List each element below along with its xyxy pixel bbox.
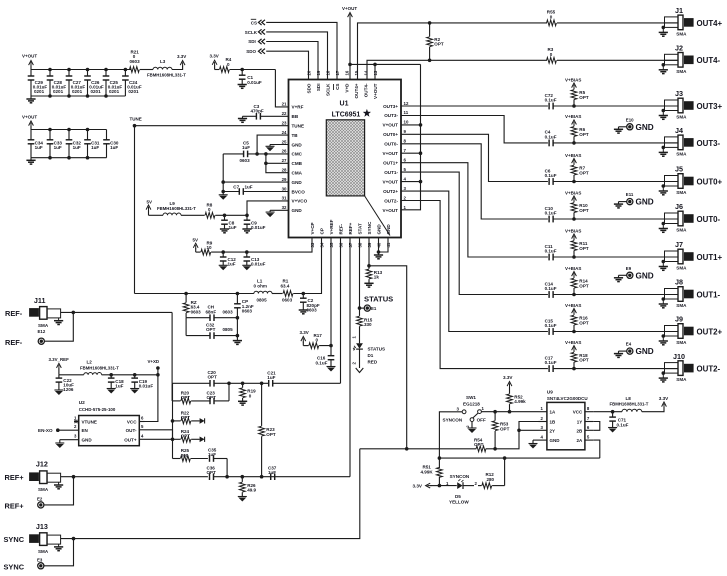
svg-text:3.3V_REF: 3.3V_REF	[49, 357, 70, 362]
svg-text:E4: E4	[626, 342, 632, 347]
ground (D1)	[356, 368, 364, 373]
svg-text:OUT3+: OUT3+	[383, 104, 398, 109]
svg-text:SMA: SMA	[676, 377, 687, 382]
resistor R25 200	[173, 448, 208, 461]
wire U9 VCC rail	[593, 411, 622, 413]
capacitor C22 10uF 1206	[56, 375, 75, 392]
U1 pin 34 CP	[319, 228, 324, 247]
wire R8 to pin31	[215, 201, 288, 215]
capacitor C16 0.1uF	[316, 346, 335, 367]
svg-text:0201: 0201	[34, 89, 45, 94]
U9 pin 3 2Y	[539, 425, 556, 434]
capacitor C11 0.1uF (OUT1+)	[545, 244, 557, 261]
resistor R24 OPT	[173, 429, 200, 442]
junction	[48, 68, 52, 98]
svg-text:0.1uF: 0.1uF	[316, 360, 328, 365]
power flag 3.3V (L8)	[659, 396, 669, 408]
resistor R52 4.99k	[507, 387, 513, 412]
svg-text:E2: E2	[37, 497, 43, 502]
net SCLK to pin18	[245, 29, 328, 79]
wire C20 to C21	[229, 382, 269, 384]
svg-text:E10: E10	[626, 117, 634, 122]
wire OUT2+ line	[401, 191, 548, 331]
svg-text:22: 22	[282, 111, 287, 116]
junction CM node	[264, 152, 268, 156]
U1 pin 20 SDO	[306, 70, 311, 93]
svg-text:OPT: OPT	[206, 327, 216, 332]
svg-text:LTC6951: LTC6951	[332, 112, 361, 119]
svg-text:CS: CS	[251, 20, 257, 25]
svg-text:OUT+: OUT+	[124, 438, 137, 443]
wire OUT+ route	[145, 438, 173, 440]
capacitor C8 1uF	[221, 215, 237, 230]
resistor R2 OPT	[427, 23, 444, 60]
svg-text:SYNC: SYNC	[367, 221, 372, 234]
svg-text:SMA: SMA	[676, 340, 687, 345]
junction	[104, 68, 108, 98]
power flag V+BIAS (R6)	[565, 114, 581, 126]
capacitor C26 0.01uF 0201	[84, 70, 104, 97]
U2 pin 5 OUT-	[126, 424, 145, 433]
svg-text:OPT: OPT	[579, 171, 589, 176]
junction V+XD rail tap	[156, 373, 160, 377]
svg-text:2: 2	[466, 425, 470, 427]
power flag 5V (V+CP)	[193, 238, 201, 253]
wire V+OUT pin4 stub	[401, 181, 421, 183]
svg-text:1uF: 1uF	[268, 470, 276, 475]
U1 pin 36 REF-	[338, 223, 343, 247]
svg-text:J1: J1	[675, 6, 683, 15]
connector J7 SMA OUT1+	[659, 240, 723, 270]
svg-text:V+OUT: V+OUT	[373, 83, 378, 99]
wire R15 to D1	[359, 326, 361, 343]
U1 pin 19 SDI	[316, 70, 321, 91]
svg-text:OUT0-: OUT0-	[384, 142, 398, 147]
svg-text:32: 32	[282, 205, 287, 210]
U1 pin 25 GND	[282, 139, 303, 147]
svg-text:TUNE: TUNE	[292, 124, 305, 129]
connector J6 SMA OUT0-	[659, 202, 721, 232]
power flag V+BIAS (R11)	[565, 228, 581, 240]
svg-text:V+BIAS: V+BIAS	[565, 266, 581, 271]
wire OUT4- to J2	[557, 59, 678, 61]
ground (pin25 GND)	[266, 145, 289, 152]
wire V+OUT pin10 stub	[401, 124, 421, 126]
svg-text:J3: J3	[675, 89, 683, 98]
wire 2A loop	[593, 440, 600, 458]
svg-text:10: 10	[404, 120, 409, 125]
svg-text:19: 19	[316, 70, 321, 75]
connector J1 SMA OUT4+	[659, 6, 723, 36]
junction bus tap pin4	[419, 180, 423, 184]
svg-text:J5: J5	[675, 165, 683, 174]
wire OUT0+ line	[401, 134, 548, 181]
capacitor C5 1uF 0603 (CM)	[223, 141, 288, 163]
ground (C7/pin29)	[219, 195, 228, 200]
svg-text:1uF: 1uF	[115, 384, 123, 389]
inductor L3 FBMH1608HL331-T	[147, 59, 186, 77]
test point E3 SYNC	[4, 558, 44, 572]
wire R9 to pin33	[211, 238, 312, 252]
node EN-XO	[38, 428, 60, 433]
svg-text:0201: 0201	[72, 89, 83, 94]
svg-text:GND: GND	[550, 438, 561, 443]
capacitor C30 1uF	[103, 130, 119, 158]
wire OUT4+ line	[358, 23, 548, 80]
svg-text:1B: 1B	[550, 420, 557, 425]
svg-text:J8: J8	[675, 278, 683, 287]
capacitor C10 0.1uF (OUT0-)	[545, 206, 557, 223]
svg-text:OUT4+: OUT4+	[697, 19, 723, 28]
svg-text:1uF: 1uF	[228, 262, 236, 267]
ground (C22)	[54, 390, 63, 395]
connector J8 SMA OUT1-	[659, 278, 721, 308]
svg-text:24: 24	[282, 130, 287, 135]
capacitor C34 1uF	[28, 130, 44, 158]
svg-text:16: 16	[345, 70, 350, 75]
svg-text:STAT: STAT	[357, 223, 362, 235]
svg-text:3.3V: 3.3V	[503, 375, 513, 380]
svg-text:E9: E9	[626, 266, 632, 271]
wire 1Y-2B loop	[593, 422, 600, 431]
capacitor C24 0.01uF 0201	[122, 70, 142, 97]
U2 pin 6 VCC	[127, 416, 145, 425]
svg-text:OPT: OPT	[207, 395, 217, 400]
wire SW1 pin3 drop	[439, 412, 462, 458]
U9 pin 6 2B	[577, 425, 594, 434]
svg-text:3.3V: 3.3V	[300, 330, 309, 335]
wire V+OUT pin7 stub	[401, 152, 421, 154]
junction	[67, 68, 71, 98]
wire OUT- route	[145, 430, 173, 440]
ground (pin32 GND)	[266, 210, 289, 217]
svg-text:0.1uF: 0.1uF	[545, 173, 557, 178]
wire OUT2+ to J9	[553, 331, 678, 333]
svg-text:SMA: SMA	[676, 115, 687, 120]
wire SYNC from pin39	[369, 238, 407, 449]
capacitor C2 820pF 0603	[300, 294, 320, 313]
svg-text:1A: 1A	[550, 410, 557, 415]
capacitor C15 0.1uF (OUT2+)	[545, 318, 557, 335]
U1 pin 38 STAT	[357, 223, 362, 248]
capacitor C27 0.01uF 0201	[66, 70, 86, 97]
capacitor C18 1uF	[108, 375, 124, 389]
svg-text:3.3V: 3.3V	[413, 484, 423, 489]
svg-text:STATUS: STATUS	[364, 295, 393, 304]
svg-text:63.4: 63.4	[281, 283, 290, 288]
wire C35 drop	[226, 459, 228, 478]
U1 pin 7 V+OUT	[383, 148, 407, 156]
wire V+OUT top rail	[350, 63, 421, 65]
junction R13 node	[367, 264, 371, 268]
ground (pins 40/41 GND)	[374, 238, 388, 259]
svg-text:49.9: 49.9	[247, 488, 256, 493]
capacitor C32 OPT 0805	[186, 318, 237, 339]
ground (C8)	[220, 229, 229, 233]
junction J11 tap	[72, 311, 76, 315]
svg-text:1Y: 1Y	[577, 420, 583, 425]
svg-text:41: 41	[386, 242, 391, 247]
LED D1 RED STATUS	[351, 336, 385, 369]
svg-text:SYNCON: SYNCON	[450, 474, 470, 479]
ground (R13)	[364, 283, 373, 287]
svg-text:OPT: OPT	[579, 321, 589, 326]
junction	[86, 128, 90, 160]
junction R23 join	[260, 475, 264, 479]
ground (C12)	[219, 265, 228, 270]
svg-text:25: 25	[282, 139, 287, 144]
capacitor C13 0.01uF	[244, 252, 266, 267]
svg-text:SCLK: SCLK	[325, 83, 330, 96]
junction R53 top	[493, 410, 497, 414]
svg-text:REF-: REF-	[338, 223, 343, 234]
wire bank2 left drop	[30, 158, 32, 161]
resistor R51 4.99K	[421, 458, 443, 486]
svg-text:E1: E1	[371, 306, 377, 311]
svg-text:SMA: SMA	[38, 549, 49, 554]
svg-text:18: 18	[326, 70, 331, 75]
svg-text:J11: J11	[34, 296, 46, 305]
svg-text:FBMH1608HL331-T: FBMH1608HL331-T	[610, 401, 649, 406]
svg-text:BVCO: BVCO	[292, 189, 306, 194]
svg-text:GND: GND	[292, 142, 303, 147]
svg-text:V+BIAS: V+BIAS	[565, 228, 581, 233]
svg-text:0.1uF: 0.1uF	[545, 360, 557, 365]
wire OUT4- line	[367, 60, 547, 79]
junction R26 node	[241, 475, 245, 479]
U1 pin 1 V+OUT	[383, 205, 407, 213]
ground (C19)	[130, 389, 139, 394]
wire bank2 bottom rail	[31, 157, 107, 159]
resistor R15 330	[357, 316, 373, 327]
wire OUT1- line	[401, 172, 548, 294]
inductor L8 FBMH1608HL331-T	[610, 396, 649, 412]
ground (R26)	[238, 497, 247, 502]
svg-text:3.3V: 3.3V	[177, 54, 186, 59]
svg-text:CS: CS	[335, 84, 340, 90]
wire R4 to C1 node	[230, 69, 276, 71]
junction R22 tap	[171, 419, 175, 423]
node V+XD	[148, 359, 160, 375]
svg-text:OUT0-: OUT0-	[697, 215, 721, 224]
svg-text:0.1uF: 0.1uF	[545, 249, 557, 254]
wire C21 to pin36	[340, 238, 342, 383]
svg-text:C7: C7	[233, 184, 239, 189]
svg-text:OPT: OPT	[579, 246, 589, 251]
svg-text:330: 330	[364, 322, 372, 327]
svg-text:V+REF: V+REF	[329, 219, 334, 234]
svg-text:200: 200	[181, 453, 189, 458]
junction R24 tap	[171, 438, 175, 442]
junction V+OUT tap	[348, 63, 352, 67]
svg-text:SN74LVC2G00DCU: SN74LVC2G00DCU	[547, 396, 588, 401]
U1 pin 33 V+CP	[310, 222, 315, 247]
svg-text:L8: L8	[626, 396, 632, 401]
svg-text:V+BIAS: V+BIAS	[565, 340, 581, 345]
svg-text:D1: D1	[368, 353, 374, 358]
ground (CP)	[233, 341, 242, 345]
U9 pin 1 1A	[539, 406, 557, 415]
svg-text:SMA: SMA	[676, 190, 687, 195]
junction R18 node	[572, 367, 576, 371]
capacitor C71 0.1uF	[609, 412, 628, 428]
wire bank1 top rail	[31, 69, 131, 71]
wire REF- drop	[171, 312, 173, 383]
svg-text:31: 31	[282, 196, 287, 201]
capacitor C1 0.01uF	[239, 70, 262, 85]
net SDI to pin19	[248, 39, 318, 80]
U1 pin 11 OUT3-	[384, 110, 408, 118]
power flag 3.3V (D5)	[413, 483, 440, 489]
svg-text:V+OUT: V+OUT	[342, 6, 357, 11]
U1 pin 21 V+RF	[282, 102, 304, 110]
node TUNE	[130, 116, 142, 127]
resistor R7 OPT	[571, 165, 589, 181]
svg-text:4.99k: 4.99k	[514, 399, 526, 404]
junction R19 node	[241, 382, 245, 386]
svg-text:0201: 0201	[91, 89, 102, 94]
op-amp U9 SN74LVC2G00DCU body	[547, 390, 588, 450]
svg-text:OPT: OPT	[181, 434, 191, 439]
test point E2 REF+	[5, 497, 44, 511]
op-amp U1 LTC6951 body	[289, 80, 402, 238]
net CS to pin17	[251, 19, 337, 79]
junction C1 node	[240, 68, 244, 72]
junction LED node	[438, 484, 442, 488]
svg-text:OPT: OPT	[474, 442, 484, 447]
U2 pin 3 GND	[55, 434, 92, 449]
svg-text:RED: RED	[368, 360, 378, 365]
svg-text:1uF: 1uF	[91, 145, 99, 150]
junction R11 node	[572, 255, 576, 259]
switch SW1 EG1218 SYNCON/OFF	[443, 395, 486, 428]
svg-text:CMA: CMA	[292, 171, 303, 176]
wire bank2 top rail	[31, 129, 107, 131]
power flag V+OUT (top)	[342, 6, 357, 19]
resistor R6 OPT	[571, 127, 589, 143]
junction C2 node	[302, 292, 306, 296]
svg-text:0.1uF: 0.1uF	[545, 135, 557, 140]
svg-text:27: 27	[282, 158, 287, 163]
U1 pin 39 SYNC	[367, 221, 372, 247]
wire J12 line	[61, 476, 208, 478]
ground (bank1)	[26, 99, 35, 103]
junction 2Y tap	[517, 429, 521, 433]
svg-text:0603: 0603	[223, 309, 234, 314]
svg-text:J9: J9	[675, 315, 683, 324]
power flag V+BIAS (R7)	[565, 153, 581, 165]
svg-text:33: 33	[310, 242, 315, 247]
svg-text:1uF: 1uF	[267, 375, 275, 380]
svg-text:GND: GND	[376, 224, 381, 235]
U1 pin 5 OUT1-	[384, 167, 406, 175]
ground (C13)	[242, 265, 251, 270]
junction C8 node	[223, 214, 227, 218]
resistor RZ 63.4 0603	[183, 294, 201, 318]
svg-text:0805: 0805	[257, 298, 268, 303]
wire pin29 GND	[223, 181, 288, 183]
svg-text:23: 23	[282, 121, 287, 126]
svg-text:V+BIAS: V+BIAS	[565, 114, 581, 119]
connector J11 SMA REF-	[5, 296, 63, 328]
svg-text:OUT2-: OUT2-	[697, 365, 721, 374]
svg-text:V+BIAS: V+BIAS	[565, 153, 581, 158]
svg-text:CP: CP	[319, 228, 324, 234]
svg-text:V+OUT: V+OUT	[383, 123, 399, 128]
ground (C9)	[242, 229, 251, 233]
power flag 3.3V_REF	[49, 357, 70, 375]
svg-text:BB: BB	[292, 114, 299, 119]
svg-text:L2: L2	[87, 360, 93, 365]
power flag V+BIAS (R5)	[565, 77, 581, 89]
svg-text:1uF: 1uF	[242, 145, 250, 150]
svg-text:E3: E3	[37, 558, 43, 563]
U1 pin 8 OUT0-	[384, 139, 406, 147]
resistor R1 63.4 0603	[281, 279, 293, 303]
wire OUT3- to J4	[553, 142, 678, 144]
capacitor C3 470pF (pin22 BB)	[238, 104, 289, 123]
inductor L1 0 ohm 0805	[254, 279, 273, 303]
svg-text:0.01uF: 0.01uF	[251, 262, 266, 267]
junction C35 join	[225, 475, 229, 479]
junction J13 tap	[72, 537, 76, 541]
capacitor CH 68nF 0603	[186, 305, 237, 321]
svg-text:OPT: OPT	[208, 375, 218, 380]
capacitor C4 0.1uF (OUT3-)	[545, 130, 557, 147]
svg-text:30: 30	[282, 186, 287, 191]
svg-text:GND: GND	[636, 198, 654, 207]
U1 pin 14 OUT4-	[363, 70, 368, 97]
svg-text:4.99K: 4.99K	[421, 469, 434, 474]
U1 pad ground tie	[365, 196, 390, 236]
U1 pin 24 TB	[282, 130, 299, 138]
svg-text:OPT: OPT	[579, 284, 589, 289]
capacitor C33 1uF	[47, 130, 63, 158]
capacitor C35 1uF	[208, 447, 227, 462]
svg-text:U9: U9	[547, 390, 553, 395]
svg-text:0201: 0201	[109, 89, 120, 94]
U1 pin 9 OUT0+	[383, 129, 406, 137]
wire OUT3- line	[401, 116, 548, 143]
junction R52 bottom	[508, 410, 512, 414]
capacitor C12 1uF	[220, 252, 236, 267]
junction C18 node	[109, 373, 113, 377]
svg-text:FBMH1608HL331-T: FBMH1608HL331-T	[147, 73, 186, 78]
svg-text:V+D: V+D	[344, 83, 349, 93]
svg-text:EN: EN	[82, 428, 88, 433]
svg-text:SDO: SDO	[246, 49, 256, 54]
power flag 3.3V (R17)	[300, 330, 309, 346]
capacitor C19 0.01uF	[131, 375, 153, 389]
wire bank1 bottom rail	[31, 95, 125, 97]
resistor R8 0	[205, 202, 215, 218]
svg-text:3.3V: 3.3V	[659, 396, 669, 401]
svg-text:J7: J7	[675, 240, 683, 249]
junction CH right	[236, 316, 240, 320]
wire OUT0+ to J5	[553, 181, 678, 183]
svg-text:STATUS: STATUS	[368, 347, 386, 352]
svg-text:VCC: VCC	[573, 410, 583, 415]
test point E10 GND	[614, 117, 654, 133]
wire OUT0- line	[401, 144, 548, 219]
U1 pin 16 V+D	[344, 70, 349, 93]
resistor R54 OPT	[407, 438, 495, 452]
svg-text:1uF: 1uF	[73, 145, 81, 150]
wire J13 line	[61, 449, 360, 539]
svg-text:3.3V: 3.3V	[210, 54, 219, 59]
ground (C1)	[238, 85, 247, 89]
svg-text:SMA: SMA	[676, 303, 687, 308]
